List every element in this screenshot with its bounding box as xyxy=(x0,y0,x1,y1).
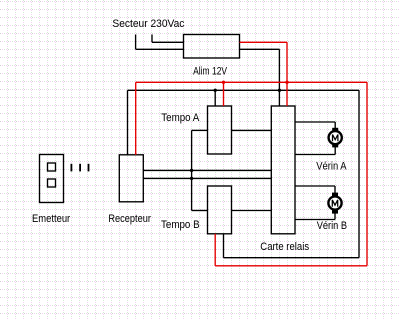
wire red bottom return xyxy=(215,234,367,266)
wire Verin A bottom lead xyxy=(295,147,335,155)
junction dot red bus / Tempo A xyxy=(222,81,225,84)
emitter button square 2 xyxy=(48,179,56,187)
svg-text:Tempo B: Tempo B xyxy=(161,219,200,231)
block Alim 12V xyxy=(184,35,240,59)
junction dot bus2 / tempo link xyxy=(190,177,193,180)
svg-text:Vérin B: Vérin B xyxy=(317,220,347,232)
motor M Verin B xyxy=(328,193,341,214)
wire black stub to Tempo A xyxy=(214,90,216,106)
wire signal bus 1 Recepteur to Carte relais xyxy=(143,169,271,171)
wire red 12V bus xyxy=(136,81,367,83)
junction dot bus1 / tempo link xyxy=(190,169,193,172)
wire Tempo B right pin to Carte relais xyxy=(232,210,272,212)
wire red stub to Tempo A xyxy=(223,82,225,106)
junction dot black bus / carte relais xyxy=(278,89,281,92)
junction dot black bus / Tempo A xyxy=(214,89,217,92)
wire red Alim output to carte relais xyxy=(240,42,288,106)
wire Verin A top lead xyxy=(295,122,335,129)
svg-text:Secteur 230Vac: Secteur 230Vac xyxy=(112,18,184,30)
wire Verin B top lead xyxy=(295,186,335,193)
wire signal bus 2 Recepteur to Carte relais xyxy=(143,177,271,179)
junction dot red bus / carte relais xyxy=(285,81,288,84)
wire red bus right drop xyxy=(366,82,368,265)
wire Alim black output to carte relais xyxy=(240,49,280,106)
wire secteur neutral stub xyxy=(136,35,184,50)
block Tempo A xyxy=(208,106,232,154)
wire Tempo A left pin xyxy=(192,129,208,131)
svg-text:Alim 12V: Alim 12V xyxy=(193,66,228,78)
svg-text:Vérin A: Vérin A xyxy=(316,161,347,173)
block Carte relais xyxy=(271,106,295,234)
emitter button square 1 xyxy=(48,163,56,171)
wire vertical link Tempo A to Tempo B xyxy=(191,130,193,210)
svg-text:Emetteur: Emetteur xyxy=(32,213,70,225)
svg-text:Carte relais: Carte relais xyxy=(260,241,309,253)
antenna wave bar 2 xyxy=(79,164,81,172)
wire Tempo B left pin xyxy=(192,210,208,212)
wire Tempo A right pin to Carte relais xyxy=(232,129,272,131)
block Emetteur xyxy=(40,155,64,203)
antenna wave bar 1 xyxy=(71,164,73,172)
wire black bottom return xyxy=(224,234,360,258)
svg-text:Tempo A: Tempo A xyxy=(161,112,200,124)
wire secteur phase stub xyxy=(152,35,184,43)
wire black bus left drop to Recepteur xyxy=(127,90,129,155)
wire red bus left drop to Recepteur xyxy=(135,82,137,155)
wire Verin B bottom lead xyxy=(295,213,335,219)
wire black 12V bus xyxy=(128,89,360,91)
wire black bus right drop xyxy=(358,90,360,257)
block Tempo B xyxy=(208,186,232,234)
motor M Verin A xyxy=(329,128,342,148)
block Recepteur xyxy=(119,155,143,202)
antenna wave bar 3 xyxy=(88,164,90,172)
svg-text:Recepteur: Recepteur xyxy=(108,213,151,225)
